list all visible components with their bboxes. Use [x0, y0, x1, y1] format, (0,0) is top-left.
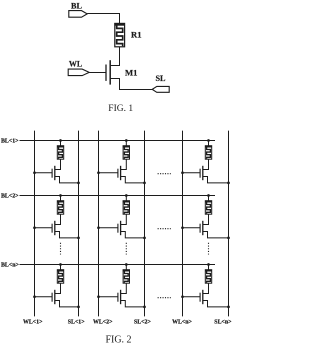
SL&lt;n&gt; line wire — [228, 131, 230, 317]
row 2 horizontal ellipsis dots — [158, 228, 171, 230]
svg-text:SL<n>: SL<n> — [214, 320, 232, 326]
cell RnC2 source wire to SL — [121, 301, 145, 307]
cell R1C1 resistor — [57, 146, 63, 160]
cell R1Cn resistor — [205, 146, 211, 160]
cell RnC1 transistor gate plate — [51, 293, 53, 302]
cell R2C1 wire resistor to drain — [55, 214, 61, 224]
svg-text:SL: SL — [155, 74, 166, 83]
cell R2Cn junction on BL — [207, 194, 210, 197]
cell RnC2 gate wire — [99, 296, 118, 298]
cell R1Cn wire BL to resistor — [208, 141, 210, 146]
svg-text:BL: BL — [71, 1, 82, 10]
cell RnC1 source wire to SL — [55, 301, 79, 307]
WL&lt;2&gt; line wire — [98, 131, 100, 317]
cell R1C1 junction on BL — [59, 139, 62, 142]
cell R1C2 transistor channel — [120, 166, 122, 180]
cell RnCn resistor — [205, 270, 211, 284]
cell RnC2 transistor gate plate — [117, 293, 119, 302]
cell RnC2 wire BL to resistor — [125, 265, 127, 270]
cell RnC1 junction on WL — [33, 295, 36, 298]
cell R1C2 junction on SL — [143, 182, 146, 185]
cell RnCn junction on WL — [181, 295, 184, 298]
cell R2Cn junction on WL — [181, 226, 184, 229]
cell RnC1 transistor channel — [54, 290, 56, 304]
cell RnCn junction on SL — [227, 306, 230, 309]
cell R2C2 resistor — [123, 201, 129, 215]
cell R1C1 junction on SL — [77, 182, 80, 185]
svg-text:BL<2>: BL<2> — [1, 193, 19, 199]
cell R1C1 transistor gate plate — [51, 169, 53, 178]
cell RnCn transistor gate plate — [199, 293, 201, 302]
cell R1C1 wire resistor to drain — [55, 159, 61, 169]
cell RnC2 junction on WL — [97, 295, 100, 298]
cell R1C1 transistor channel — [54, 166, 56, 180]
cell RnC2 junction on SL — [143, 306, 146, 309]
cell RnC1 wire resistor to drain — [55, 283, 61, 293]
wire BL to R1 top — [87, 14, 119, 24]
cell RnC1 gate wire — [35, 296, 53, 298]
cell R1C2 source wire to SL — [121, 177, 145, 183]
row n horizontal ellipsis dots — [158, 297, 171, 299]
cell R2C2 gate wire — [99, 227, 118, 229]
column n vertical ellipsis dots — [208, 243, 210, 255]
WL&lt;n&gt; line wire — [182, 131, 184, 317]
svg-text:BL<1>: BL<1> — [1, 138, 19, 144]
cell RnC1 resistor — [57, 270, 63, 284]
cell R2C1 junction on SL — [77, 237, 80, 240]
cell RnCn source wire to SL — [203, 301, 229, 307]
cell R2Cn gate wire — [183, 227, 201, 229]
svg-text:BL<n>: BL<n> — [1, 262, 19, 268]
cell R1Cn transistor channel — [202, 166, 204, 180]
cell R2Cn source wire to SL — [203, 232, 229, 238]
cell R1C2 transistor gate plate — [117, 169, 119, 178]
svg-text:FIG. 2: FIG. 2 — [105, 334, 131, 345]
svg-text:FIG. 1: FIG. 1 — [108, 104, 133, 114]
svg-text:WL<1>: WL<1> — [23, 320, 43, 326]
cell RnCn transistor channel — [202, 290, 204, 304]
SL&lt;2&gt; line wire — [144, 131, 146, 317]
svg-text:SL<1>: SL<1> — [68, 320, 86, 326]
column 2 vertical ellipsis dots — [125, 243, 127, 255]
cell R2Cn junction on SL — [227, 237, 230, 240]
cell RnC1 junction on SL — [77, 306, 80, 309]
cell RnC1 junction on BL — [59, 263, 62, 266]
cell R2C2 wire resistor to drain — [121, 214, 127, 224]
cell R2Cn wire BL to resistor — [208, 196, 210, 201]
cell R1C2 wire resistor to drain — [121, 159, 127, 169]
svg-text:WL<n>: WL<n> — [172, 320, 192, 326]
resistor R1 — [115, 23, 125, 46]
cell R2C1 junction on WL — [33, 226, 36, 229]
cell R2C2 transistor channel — [120, 221, 122, 235]
cell R2Cn transistor channel — [202, 221, 204, 235]
cell RnCn gate wire — [183, 296, 201, 298]
cell R2C1 wire BL to resistor — [60, 196, 62, 201]
WL&lt;1&gt; line wire — [34, 131, 36, 317]
transistor M1 gate plate — [105, 65, 107, 81]
bit line BL&lt;n&gt; wire — [20, 264, 216, 266]
cell R1C2 gate wire — [99, 172, 118, 174]
row 1 horizontal ellipsis dots — [158, 173, 171, 175]
cell R2C2 wire BL to resistor — [125, 196, 127, 201]
cell RnC2 wire resistor to drain — [121, 283, 127, 293]
cell R2C1 junction on BL — [59, 194, 62, 197]
cell R2C2 junction on BL — [125, 194, 128, 197]
cell R2C1 transistor gate plate — [51, 224, 53, 233]
bit line BL&lt;2&gt; wire — [20, 195, 216, 197]
bit line BL&lt;1&gt; wire — [20, 140, 216, 142]
cell R1Cn junction on SL — [227, 182, 230, 185]
cell RnCn wire resistor to drain — [203, 283, 209, 293]
cell R2C2 transistor gate plate — [117, 224, 119, 233]
cell R2C1 source wire to SL — [55, 232, 79, 238]
cell R2C1 gate wire — [35, 227, 53, 229]
cell RnCn junction on BL — [207, 263, 210, 266]
wire R1 bottom to M1 drain — [111, 47, 120, 66]
cell R1C2 junction on WL — [97, 171, 100, 174]
cell R2C1 transistor channel — [54, 221, 56, 235]
cell R2C1 resistor — [57, 201, 63, 215]
cell RnC2 junction on BL — [125, 263, 128, 266]
cell R2Cn resistor — [205, 201, 211, 215]
svg-text:R1: R1 — [131, 30, 142, 40]
cell R1Cn gate wire — [183, 172, 201, 174]
cell R1C2 resistor — [123, 146, 129, 160]
cell RnCn wire BL to resistor — [208, 265, 210, 270]
cell R1C1 wire BL to resistor — [60, 141, 62, 146]
cell R2C2 source wire to SL — [121, 232, 145, 238]
svg-text:WL: WL — [69, 60, 82, 69]
cell RnC2 resistor — [123, 270, 129, 284]
cell R1Cn junction on WL — [181, 171, 184, 174]
transistor M1 channel — [109, 60, 111, 84]
cell R1Cn transistor gate plate — [199, 169, 201, 178]
SL&lt;1&gt; line wire — [78, 131, 80, 317]
svg-text:SL<2>: SL<2> — [134, 320, 152, 326]
svg-text:M1: M1 — [125, 68, 137, 78]
column 1 vertical ellipsis dots — [60, 243, 62, 255]
cell R1C1 gate wire — [35, 172, 53, 174]
cell R1C2 junction on BL — [125, 139, 128, 142]
pin flag BL — [69, 11, 87, 18]
svg-text:WL<2>: WL<2> — [93, 320, 113, 326]
cell R2C2 junction on WL — [97, 226, 100, 229]
wire WL gate — [89, 72, 106, 74]
cell R2Cn transistor gate plate — [199, 224, 201, 233]
cell RnC2 transistor channel — [120, 290, 122, 304]
pin flag WL — [68, 69, 89, 76]
cell R1C2 wire BL to resistor — [125, 141, 127, 146]
cell R1C1 junction on WL — [33, 171, 36, 174]
pin flag SL — [152, 86, 169, 92]
cell R1Cn junction on BL — [207, 139, 210, 142]
cell R2C2 junction on SL — [143, 237, 146, 240]
cell R2Cn wire resistor to drain — [203, 214, 209, 224]
wire M1 source to SL — [110, 79, 152, 90]
cell R1Cn source wire to SL — [203, 177, 229, 183]
cell R1C1 source wire to SL — [55, 177, 79, 183]
cell RnC1 wire BL to resistor — [60, 265, 62, 270]
cell R1Cn wire resistor to drain — [203, 159, 209, 169]
